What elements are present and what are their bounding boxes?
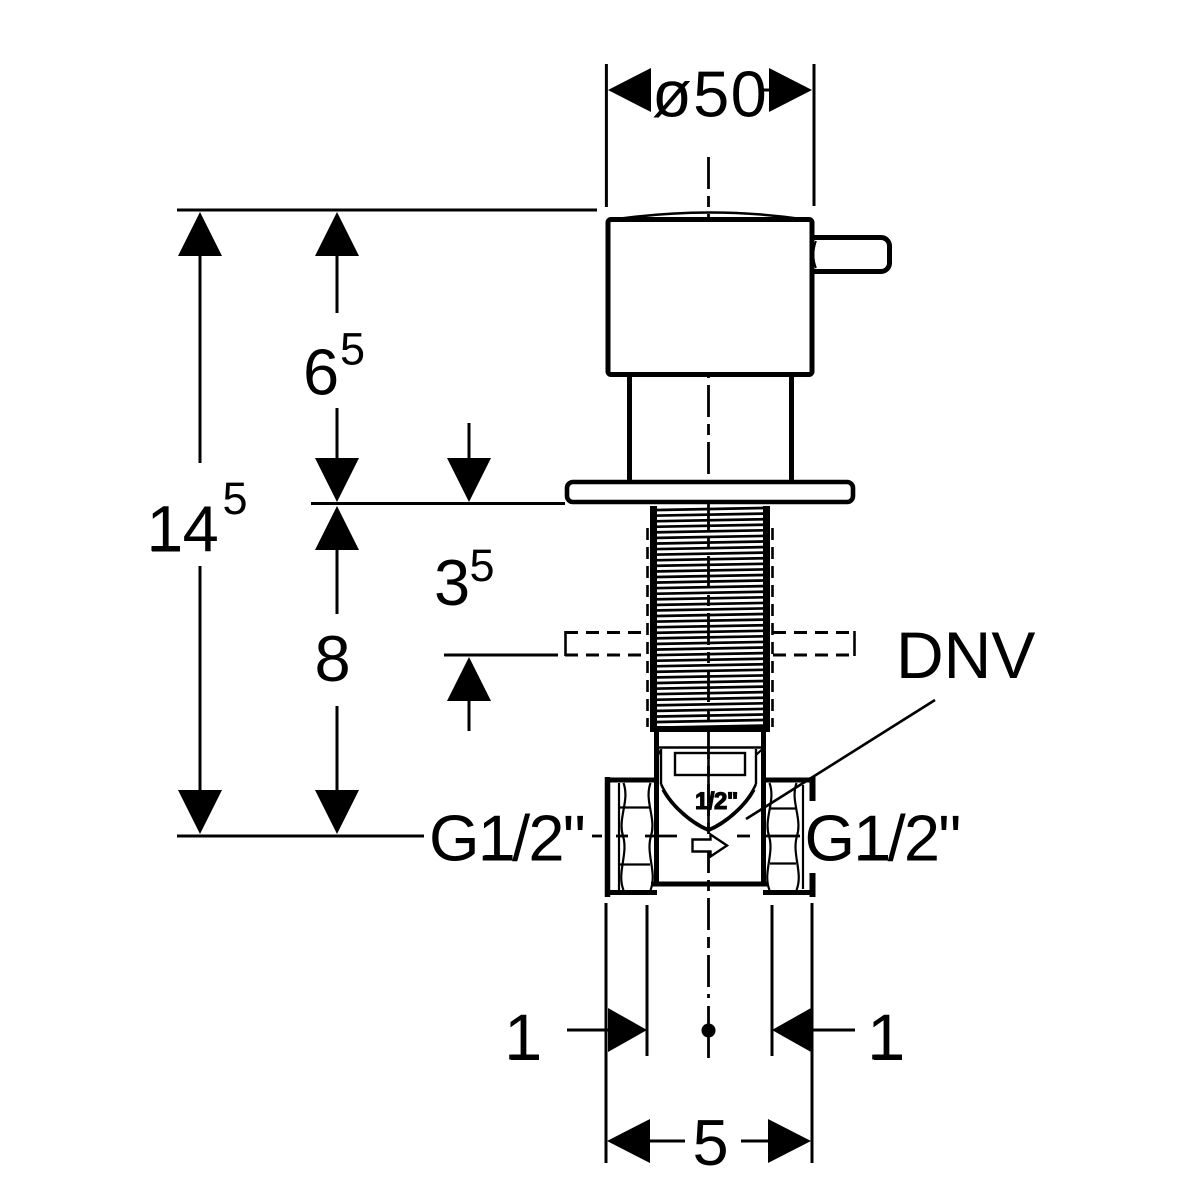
svg-text:DNV: DNV: [896, 618, 1035, 692]
svg-text:5: 5: [470, 540, 495, 591]
svg-text:1/2": 1/2": [695, 788, 738, 815]
svg-text:G1/2": G1/2": [429, 802, 584, 875]
svg-text:1: 1: [867, 1001, 903, 1074]
svg-text:G1/2": G1/2": [805, 802, 960, 875]
svg-text:3: 3: [434, 546, 470, 619]
svg-text:ø50: ø50: [652, 58, 768, 131]
svg-text:1: 1: [504, 1001, 540, 1074]
svg-text:5: 5: [340, 324, 365, 375]
svg-text:5: 5: [693, 1106, 729, 1179]
svg-text:8: 8: [315, 622, 351, 695]
svg-text:5: 5: [223, 473, 248, 524]
svg-text:6: 6: [303, 336, 339, 409]
svg-text:14: 14: [147, 492, 219, 565]
